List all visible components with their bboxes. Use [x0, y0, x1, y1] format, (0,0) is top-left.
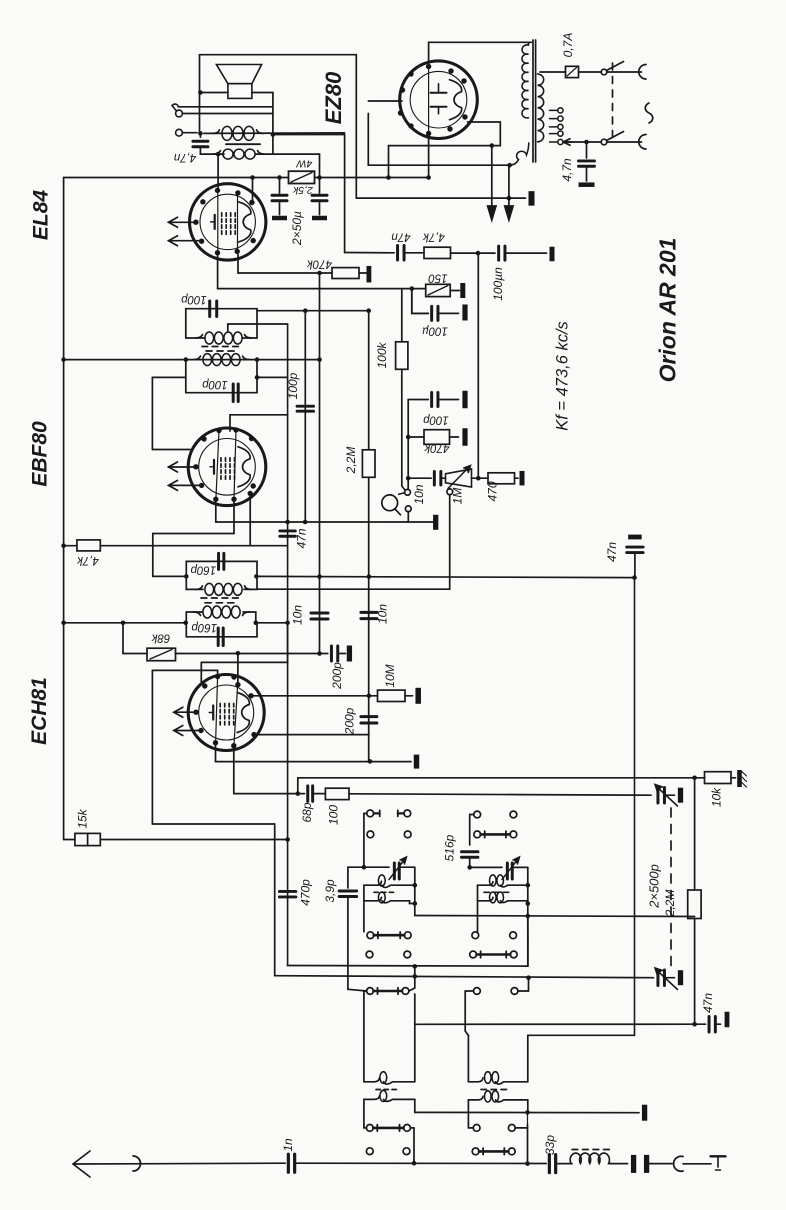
- svg-text:470k: 470k: [423, 441, 449, 453]
- svg-text:2,2M: 2,2M: [663, 890, 677, 918]
- svg-text:470: 470: [486, 481, 500, 501]
- svg-text:15k: 15k: [76, 808, 90, 828]
- svg-text:160p: 160p: [190, 563, 216, 575]
- svg-text:100µn: 100µn: [491, 267, 505, 301]
- svg-text:Orion AR 201: Orion AR 201: [655, 238, 681, 383]
- svg-text:10n: 10n: [291, 605, 305, 625]
- svg-text:Kf = 473,6 kc/s: Kf = 473,6 kc/s: [554, 321, 572, 431]
- svg-text:10M: 10M: [383, 664, 397, 687]
- svg-text:47n: 47n: [391, 230, 410, 242]
- svg-text:EL84: EL84: [30, 190, 53, 241]
- svg-text:EZ80: EZ80: [321, 71, 346, 124]
- svg-text:4,7n: 4,7n: [174, 151, 196, 163]
- svg-text:33p: 33p: [543, 1135, 557, 1155]
- svg-text:68k: 68k: [150, 631, 170, 643]
- svg-text:2,5k: 2,5k: [292, 184, 314, 196]
- svg-text:0,7A: 0,7A: [561, 33, 575, 58]
- svg-text:100p: 100p: [286, 372, 300, 399]
- svg-text:100p: 100p: [181, 293, 207, 305]
- svg-text:4,7n: 4,7n: [560, 158, 574, 182]
- svg-text:470k: 470k: [306, 257, 332, 269]
- svg-text:ECH81: ECH81: [28, 677, 51, 745]
- svg-text:100k: 100k: [375, 341, 389, 368]
- svg-text:68p: 68p: [300, 802, 314, 822]
- svg-text:47n: 47n: [605, 542, 619, 562]
- svg-text:4,7k: 4,7k: [76, 554, 99, 566]
- svg-text:2×500p: 2×500p: [647, 864, 662, 909]
- svg-text:EBF80: EBF80: [29, 421, 52, 487]
- svg-text:150: 150: [428, 271, 448, 283]
- svg-text:4,7k: 4,7k: [422, 230, 445, 242]
- svg-text:100µ: 100µ: [422, 324, 448, 336]
- svg-text:200p: 200p: [330, 662, 344, 690]
- svg-text:47n: 47n: [701, 993, 715, 1013]
- svg-text:470p: 470p: [299, 879, 313, 906]
- svg-text:3,9p: 3,9p: [323, 879, 337, 903]
- svg-text:10n: 10n: [376, 604, 390, 624]
- svg-text:10n: 10n: [412, 484, 426, 504]
- svg-text:4W: 4W: [296, 158, 313, 170]
- svg-text:160p: 160p: [191, 621, 217, 633]
- svg-text:100p: 100p: [202, 378, 228, 390]
- svg-text:100: 100: [327, 805, 341, 825]
- svg-text:2,2M: 2,2M: [344, 447, 358, 475]
- svg-text:10k: 10k: [710, 787, 724, 807]
- svg-text:200p: 200p: [343, 707, 357, 735]
- svg-text:2×50µ: 2×50µ: [290, 211, 304, 246]
- svg-text:516p: 516p: [443, 834, 457, 861]
- svg-text:100p: 100p: [423, 413, 449, 425]
- svg-text:1n: 1n: [281, 1138, 295, 1152]
